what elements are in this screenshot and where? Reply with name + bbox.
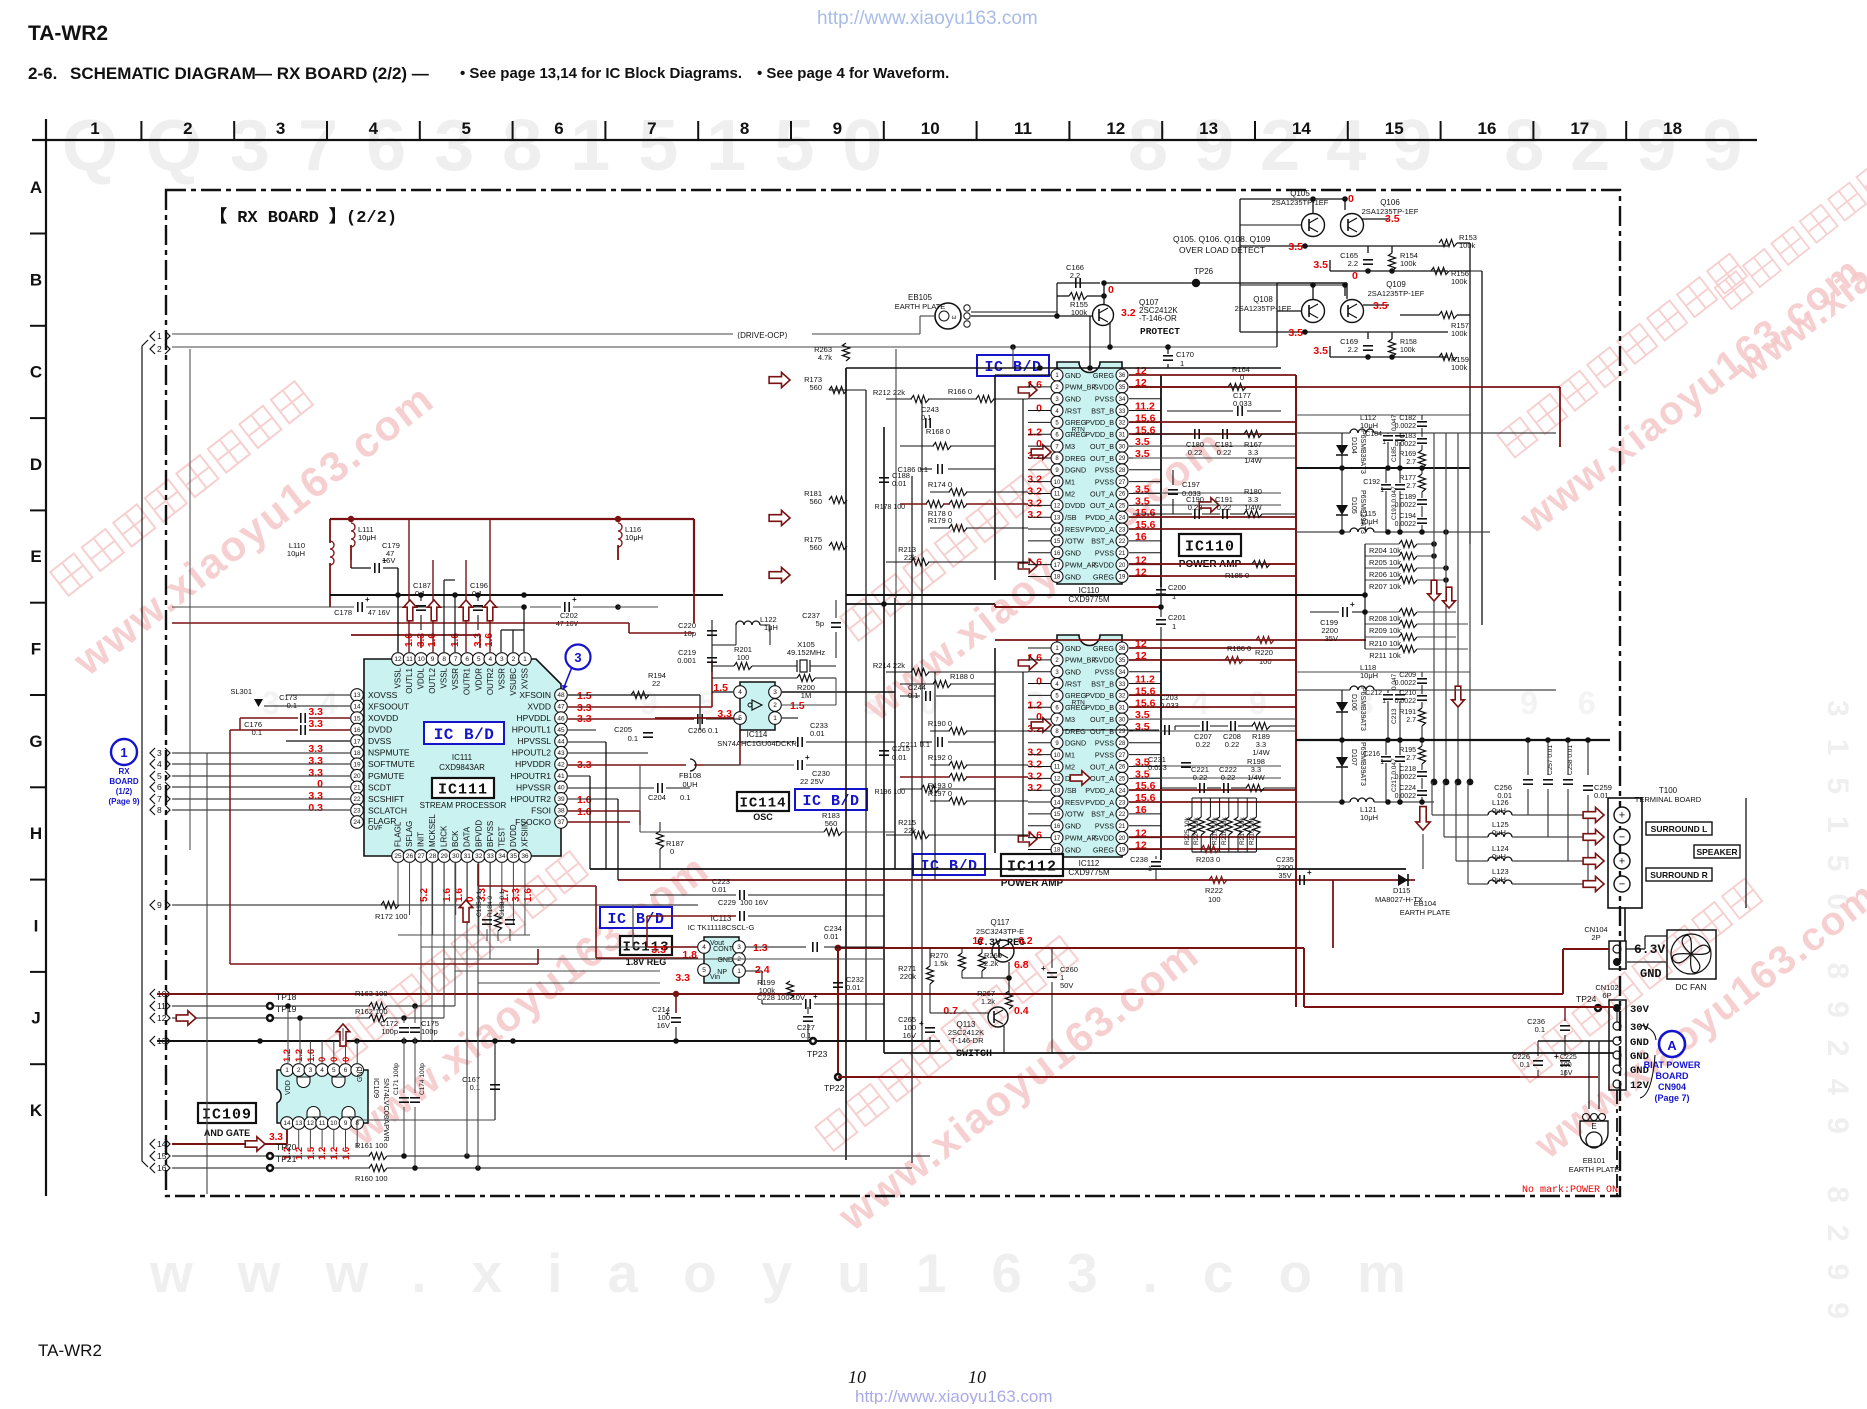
svg-text:30V: 30V xyxy=(1630,1004,1650,1016)
IC111 left components xyxy=(286,694,350,696)
svg-text:6P: 6P xyxy=(1602,991,1611,1000)
svg-text:OUT_A: OUT_A xyxy=(1090,501,1114,510)
svg-text:34: 34 xyxy=(1119,670,1126,676)
IC111 pin 35 xyxy=(507,850,520,863)
svg-text:Q109: Q109 xyxy=(1386,280,1406,289)
IC111 pin 41 xyxy=(555,769,568,782)
svg-text:XFSOOUT: XFSOOUT xyxy=(368,702,409,712)
svg-text:10: 10 xyxy=(968,1367,986,1387)
svg-text:1: 1 xyxy=(1380,487,1384,494)
svg-text:C206 0.1: C206 0.1 xyxy=(688,726,718,735)
capacitor C193 xyxy=(1395,484,1405,486)
svg-text:EARTH PLATE: EARTH PLATE xyxy=(1569,1165,1620,1174)
IC111 pin 29 xyxy=(438,850,451,863)
svg-text:30: 30 xyxy=(1119,717,1126,723)
svg-text:+: + xyxy=(572,595,577,604)
svg-text:47 16V: 47 16V xyxy=(368,610,391,617)
svg-text:0.1: 0.1 xyxy=(415,589,425,598)
inductors L126 L125 L124 L123 xyxy=(1488,811,1512,815)
svg-text:2SA1235TP-1EF: 2SA1235TP-1EF xyxy=(1368,289,1425,298)
IC111 pin 17 xyxy=(351,735,364,748)
svg-text:7: 7 xyxy=(157,794,162,804)
svg-text:OUT_A: OUT_A xyxy=(1090,762,1114,771)
svg-text:0.22: 0.22 xyxy=(1193,773,1208,782)
capacitor C179 xyxy=(374,563,376,573)
svg-text:IC110: IC110 xyxy=(1185,538,1235,555)
svg-text:2.2k: 2.2k xyxy=(984,959,998,968)
svg-text:HPVDDL: HPVDDL xyxy=(517,713,552,723)
svg-text:PVDD_A: PVDD_A xyxy=(1085,786,1114,795)
caps C190 C191 R180 xyxy=(1194,509,1196,519)
resistor R164 xyxy=(1228,383,1246,390)
svg-text:6: 6 xyxy=(344,1067,348,1074)
svg-text:2P: 2P xyxy=(1591,933,1600,942)
out arrows xyxy=(1031,445,1051,459)
svg-text:R218 10k: R218 10k xyxy=(1221,816,1228,845)
svg-text:18: 18 xyxy=(1054,575,1061,581)
svg-text:3.5: 3.5 xyxy=(1288,327,1303,339)
IC112 pin 27 xyxy=(1116,749,1128,761)
svg-text:DVDD: DVDD xyxy=(1065,501,1085,510)
svg-text:BOARD: BOARD xyxy=(109,777,139,786)
svg-text:+: + xyxy=(1350,600,1355,609)
svg-text:0.033: 0.033 xyxy=(1148,763,1167,772)
svg-text:1: 1 xyxy=(1148,864,1152,873)
svg-text:14: 14 xyxy=(283,1120,291,1127)
svg-text:R197 0: R197 0 xyxy=(928,789,952,798)
svg-text:C225: C225 xyxy=(1560,1054,1577,1061)
IC111 pin 39 xyxy=(555,793,568,806)
IC112 pin 15 xyxy=(1051,808,1063,820)
svg-text:36: 36 xyxy=(521,853,529,860)
pwm arrows into amps xyxy=(1018,383,1037,397)
svg-text:10μH: 10μH xyxy=(625,533,643,542)
svg-text:3.3: 3.3 xyxy=(308,790,323,802)
svg-text:• See page 4 for Waveform.: • See page 4 for Waveform. xyxy=(757,65,949,82)
svg-text:R220: R220 xyxy=(1255,648,1273,657)
svg-text:4: 4 xyxy=(157,759,162,769)
svg-text:TP22: TP22 xyxy=(824,1083,845,1093)
svg-text:2.7: 2.7 xyxy=(1406,755,1416,762)
svg-text:C194: C194 xyxy=(1399,513,1416,520)
svg-text:PVSS: PVSS xyxy=(1095,668,1114,677)
svg-text:SCHEMATIC DIAGRAM: SCHEMATIC DIAGRAM xyxy=(70,64,256,83)
wire <5> xyxy=(172,775,350,777)
svg-text:TP23: TP23 xyxy=(807,1049,828,1059)
svg-text:J: J xyxy=(31,1009,40,1028)
svg-text:2: 2 xyxy=(512,656,516,663)
svg-text:GND: GND xyxy=(1065,371,1081,380)
verticals pins top xyxy=(443,580,445,652)
svg-text:PVSS: PVSS xyxy=(1095,395,1114,404)
IC112 pin 5 xyxy=(1051,689,1063,701)
svg-text:GVDD: GVDD xyxy=(1093,560,1114,569)
IC112 pin 20 xyxy=(1116,832,1128,844)
svg-text:TEST: TEST xyxy=(497,826,506,847)
svg-text:3.3: 3.3 xyxy=(308,706,323,718)
svg-text:3: 3 xyxy=(309,1067,313,1074)
svg-text:IC114: IC114 xyxy=(747,730,768,739)
svg-text:48: 48 xyxy=(557,692,565,699)
capacitor C170 xyxy=(1167,347,1169,354)
svg-text:0.1: 0.1 xyxy=(287,701,297,710)
svg-text:28: 28 xyxy=(429,853,437,860)
svg-text:RX: RX xyxy=(118,767,130,776)
svg-text:No mark:POWER ON: No mark:POWER ON xyxy=(1522,1184,1618,1196)
svg-text:C189: C189 xyxy=(1399,494,1416,501)
svg-text:C195 0.1: C195 0.1 xyxy=(476,890,483,917)
wire <15> xyxy=(172,1155,370,1157)
resistor R169 xyxy=(1418,450,1425,468)
IC110 pin 36 xyxy=(1116,369,1128,381)
IC113 pin 4 xyxy=(698,941,711,954)
svg-text:R196 100: R196 100 xyxy=(875,789,905,796)
svg-text:BFVDD: BFVDD xyxy=(474,820,483,847)
svg-text:16: 16 xyxy=(1054,551,1061,557)
svg-text:23: 23 xyxy=(1119,800,1126,806)
IC111 pin 46 xyxy=(555,712,568,725)
svg-text:100: 100 xyxy=(1259,657,1272,666)
svg-text:560: 560 xyxy=(809,497,822,506)
capacitor C202 xyxy=(564,602,566,612)
svg-text:0.7: 0.7 xyxy=(943,1005,958,1017)
svg-text:34: 34 xyxy=(498,853,506,860)
capacitor C217 xyxy=(1395,756,1405,758)
node <8> xyxy=(150,805,155,815)
wire red 12V xyxy=(838,1076,1520,1078)
svg-text:P6SMB39AT3: P6SMB39AT3 xyxy=(1359,742,1366,786)
svg-text:3.5: 3.5 xyxy=(1288,241,1303,253)
svg-text:100k: 100k xyxy=(1400,259,1417,268)
svg-text:R172 100: R172 100 xyxy=(375,912,408,921)
IC109 pin 13 xyxy=(292,1117,305,1130)
IC110 pin 28 xyxy=(1116,464,1128,476)
svg-text:OUT_A: OUT_A xyxy=(1090,774,1114,783)
svg-text:0.0022: 0.0022 xyxy=(1395,502,1417,509)
svg-text:24: 24 xyxy=(1119,788,1126,794)
caps C256-C259 xyxy=(1523,779,1533,781)
svg-text:3: 3 xyxy=(773,689,777,696)
earth plate EB105 xyxy=(935,303,961,329)
IC112 pin 24 xyxy=(1116,784,1128,796)
svg-text:DREG: DREG xyxy=(1065,454,1086,463)
IC114 pin 1 xyxy=(769,712,782,725)
svg-text:20: 20 xyxy=(353,773,361,780)
svg-text:F: F xyxy=(31,640,41,659)
svg-text:37: 37 xyxy=(557,819,565,826)
capacitor C196 xyxy=(473,605,483,607)
ruler left line xyxy=(45,119,47,1196)
svg-text:22k: 22k xyxy=(904,553,916,562)
svg-text:0.033: 0.033 xyxy=(1233,399,1252,408)
svg-text:EARTH PLATE: EARTH PLATE xyxy=(1400,908,1451,917)
svg-text:PVDD_A: PVDD_A xyxy=(1085,525,1114,534)
svg-text:PWM_BP: PWM_BP xyxy=(1065,656,1096,665)
inductor L112 xyxy=(1350,429,1374,433)
svg-text:14: 14 xyxy=(1054,800,1061,806)
node <11> xyxy=(150,1001,155,1011)
svg-text:3.2: 3.2 xyxy=(1027,759,1042,771)
svg-text:C: C xyxy=(30,363,42,382)
IC112 pin 16 xyxy=(1051,820,1063,832)
svg-text:/SB: /SB xyxy=(1065,513,1077,522)
svg-text:R217 10k: R217 10k xyxy=(1239,816,1246,845)
IC111 pin 48 xyxy=(555,689,568,702)
svg-text:46: 46 xyxy=(557,715,565,722)
RX board dash-dot border xyxy=(166,190,1620,1196)
IC111 pin 40 xyxy=(555,781,568,794)
svg-text:R184 0: R184 0 xyxy=(487,896,494,917)
IC110 pin 16 xyxy=(1051,547,1063,559)
svg-text:15: 15 xyxy=(1054,539,1061,545)
svg-text:3.2: 3.2 xyxy=(1027,747,1042,759)
svg-text:560: 560 xyxy=(809,383,822,392)
svg-text:http://www.xiaoyu163.com: http://www.xiaoyu163.com xyxy=(817,8,1038,29)
inductor L121 xyxy=(1350,798,1374,802)
svg-text:10: 10 xyxy=(921,119,940,138)
svg-text:14: 14 xyxy=(1292,119,1311,138)
watermark pink xyxy=(22,321,443,685)
svg-text:1.2: 1.2 xyxy=(1027,699,1042,711)
svg-text:42: 42 xyxy=(557,761,565,768)
left resistors IC110 xyxy=(911,395,929,402)
svg-text:+: + xyxy=(805,753,810,762)
resistor R177 xyxy=(1418,474,1425,492)
wire red rail TP22 xyxy=(838,947,1304,949)
svg-text:SURROUND R: SURROUND R xyxy=(1650,870,1708,880)
capacitor C243 C188 xyxy=(925,418,927,428)
svg-text:VSSR: VSSR xyxy=(451,668,460,690)
svg-text:30V: 30V xyxy=(1630,1022,1650,1034)
IC110 pin 8 xyxy=(1051,452,1063,464)
svg-text:29: 29 xyxy=(441,853,449,860)
watermark pink xyxy=(1470,196,1867,542)
svg-text:/OTW: /OTW xyxy=(1065,810,1084,819)
svg-text:25: 25 xyxy=(1119,777,1126,783)
svg-text:0.0022: 0.0022 xyxy=(1395,441,1417,448)
earth EB104 arrow xyxy=(1416,807,1430,830)
resistor R191 xyxy=(1418,708,1425,726)
svg-text:27: 27 xyxy=(1119,480,1126,486)
power amp IC110 body xyxy=(1057,362,1122,584)
IC112 pin 34 xyxy=(1116,666,1128,678)
svg-text:1/4W: 1/4W xyxy=(1252,748,1270,757)
svg-text:PVDD_A: PVDD_A xyxy=(1085,798,1114,807)
svg-text:28: 28 xyxy=(1119,468,1126,474)
svg-text:C174 100p: C174 100p xyxy=(419,1063,426,1095)
svg-text:XOVSS: XOVSS xyxy=(368,690,398,700)
svg-text:DVDD: DVDD xyxy=(509,824,518,847)
svg-text:100k: 100k xyxy=(1451,277,1468,286)
svg-text:6: 6 xyxy=(554,119,563,138)
svg-text:BST_A: BST_A xyxy=(1091,537,1114,546)
svg-text:C209: C209 xyxy=(1399,672,1416,679)
svg-text:SN74AHC1GU04DCKR: SN74AHC1GU04DCKR xyxy=(717,739,797,748)
svg-text:35: 35 xyxy=(510,853,518,860)
svg-text:IC110: IC110 xyxy=(1079,586,1100,595)
IC111 pin 36 xyxy=(519,850,532,863)
svg-text:4: 4 xyxy=(702,944,706,951)
capacitor C212 xyxy=(1383,694,1393,696)
svg-text:IC B/D: IC B/D xyxy=(920,858,977,875)
svg-text:OUTL1: OUTL1 xyxy=(405,667,414,693)
IC110 pin 30 xyxy=(1116,440,1128,452)
svg-text:0.3: 0.3 xyxy=(308,802,323,814)
svg-text:16V: 16V xyxy=(382,556,395,565)
svg-text:1.5k: 1.5k xyxy=(934,959,948,968)
svg-text:TA-WR2: TA-WR2 xyxy=(38,1341,102,1360)
C171 C174 xyxy=(399,1097,409,1099)
IC111 pin 21 xyxy=(351,781,364,794)
svg-text:3: 3 xyxy=(276,119,285,138)
svg-text:GREG: GREG xyxy=(1093,371,1115,380)
svg-text:4: 4 xyxy=(369,119,379,138)
mid gnd line xyxy=(1296,467,1470,469)
svg-text:0.0022: 0.0022 xyxy=(1395,680,1417,687)
svg-text:4: 4 xyxy=(489,656,493,663)
svg-text:22: 22 xyxy=(1119,539,1126,545)
svg-text:K: K xyxy=(30,1101,43,1120)
svg-text:3.2: 3.2 xyxy=(1027,497,1042,509)
resistor ladder R225-R216 xyxy=(1188,817,1195,835)
node <4> xyxy=(150,759,155,769)
IC111 pin 11 xyxy=(403,653,416,666)
node <12> xyxy=(150,1013,155,1023)
IC111 pin 13 xyxy=(351,689,364,702)
inductor L116 xyxy=(618,523,622,547)
svg-text:HPVDDR: HPVDDR xyxy=(515,759,551,769)
svg-text:19: 19 xyxy=(1119,575,1126,581)
svg-text:17: 17 xyxy=(1054,563,1061,569)
svg-text:VSSL: VSSL xyxy=(394,667,403,688)
svg-text:DGND: DGND xyxy=(1065,466,1086,475)
IC109 pin 9 xyxy=(339,1117,352,1130)
svg-text:560: 560 xyxy=(809,543,822,552)
svg-text:2: 2 xyxy=(773,702,777,709)
IC111 pin 43 xyxy=(555,746,568,759)
svg-text:IC112: IC112 xyxy=(1007,858,1057,875)
C229 cap xyxy=(739,911,741,921)
svg-text:R214 22k: R214 22k xyxy=(873,661,905,670)
svg-text:0.001: 0.001 xyxy=(677,656,696,665)
svg-text:0.22: 0.22 xyxy=(1188,448,1203,457)
svg-text:DREG: DREG xyxy=(1065,727,1086,736)
svg-text:0: 0 xyxy=(1108,284,1114,296)
svg-text:D107: D107 xyxy=(1350,749,1357,766)
inductor L118 xyxy=(1350,686,1374,690)
wire <16> xyxy=(172,1167,370,1169)
svg-text:TP20: TP20 xyxy=(276,1142,297,1152)
IC112 pin 36 xyxy=(1116,642,1128,654)
svg-text:R186 0: R186 0 xyxy=(1227,644,1251,653)
wire <14> red xyxy=(172,1143,287,1145)
transistor Q105 xyxy=(1302,214,1325,237)
IC109 pin 14 xyxy=(281,1117,294,1130)
IC111 pin 15 xyxy=(351,712,364,725)
svg-text:16: 16 xyxy=(157,1163,167,1173)
IC112 pin 33 xyxy=(1116,678,1128,690)
svg-text:41: 41 xyxy=(557,773,565,780)
svg-text:−: − xyxy=(1619,832,1625,844)
svg-text:8: 8 xyxy=(442,656,446,663)
red bus above IC111 xyxy=(351,518,694,520)
left resistors IC112 xyxy=(911,668,929,675)
svg-text:3.5: 3.5 xyxy=(1313,345,1328,357)
IC112 pin 7 xyxy=(1051,713,1063,725)
red arrows mid-left xyxy=(769,372,790,387)
IC111 pin 44 xyxy=(555,735,568,748)
svg-text:3.3: 3.3 xyxy=(511,888,522,902)
svg-text:0.1: 0.1 xyxy=(472,589,482,598)
IC111 pin 2 xyxy=(507,653,520,666)
IC111 pin 30 xyxy=(449,850,462,863)
svg-text:R208 10k: R208 10k xyxy=(1369,614,1401,623)
IC114 pin 3 xyxy=(769,686,782,699)
svg-text:M1: M1 xyxy=(1065,477,1075,486)
wire bus below IC110 xyxy=(846,603,995,605)
capacitor C173 xyxy=(300,713,302,723)
svg-text:28: 28 xyxy=(1119,741,1126,747)
IC112 pin 11 xyxy=(1051,761,1063,773)
svg-text:7: 7 xyxy=(647,119,656,138)
svg-text:OUTR2: OUTR2 xyxy=(486,667,495,695)
IC109 body xyxy=(277,1070,368,1123)
svg-text:100k: 100k xyxy=(1451,329,1468,338)
terminal board T100 xyxy=(1608,798,1642,908)
svg-text:1.2k: 1.2k xyxy=(981,997,995,1006)
svg-text:DVSS: DVSS xyxy=(368,736,391,746)
node <15> xyxy=(150,1151,155,1161)
svg-text:HPOUTL2: HPOUTL2 xyxy=(512,748,551,758)
IC111 pin 28 xyxy=(426,850,439,863)
svg-text:3.2: 3.2 xyxy=(1027,782,1042,794)
IC110 pin 7 xyxy=(1051,440,1063,452)
svg-text:16: 16 xyxy=(1054,824,1061,830)
svg-text:13: 13 xyxy=(353,692,361,699)
svg-text:0.1: 0.1 xyxy=(801,1031,811,1040)
svg-text:OVF: OVF xyxy=(368,825,382,832)
svg-text:GND: GND xyxy=(1065,572,1081,581)
IC111 pin 19 xyxy=(351,758,364,771)
svg-text:GND: GND xyxy=(1630,1037,1649,1049)
svg-text:/SB: /SB xyxy=(1065,786,1077,795)
svg-text:BOARD: BOARD xyxy=(1656,1071,1689,1081)
node <14> xyxy=(150,1139,155,1149)
svg-text:GREG: GREG xyxy=(1093,644,1115,653)
svg-text:C238: C238 xyxy=(1130,855,1148,864)
resistor R195 xyxy=(1418,746,1425,764)
svg-text:TP21: TP21 xyxy=(276,1154,297,1164)
IC112 pin 13 xyxy=(1051,784,1063,796)
ruler top line xyxy=(32,139,1757,141)
svg-text:10μH: 10μH xyxy=(358,533,376,542)
svg-text:PVDD_B: PVDD_B xyxy=(1085,691,1114,700)
IC112 pin 21 xyxy=(1116,820,1128,832)
capacitor C176 xyxy=(300,725,302,735)
IC110 pin 14 xyxy=(1051,523,1063,535)
IC112 pin 32 xyxy=(1116,689,1128,701)
svg-text:D105: D105 xyxy=(1350,497,1357,514)
svg-text:19: 19 xyxy=(1119,848,1126,854)
crystal X105 xyxy=(800,660,807,672)
svg-text:3.2: 3.2 xyxy=(1027,770,1042,782)
svg-text:0.0022: 0.0022 xyxy=(1395,698,1417,705)
resistor R155 xyxy=(1069,292,1087,299)
svg-text:26: 26 xyxy=(1119,492,1126,498)
inductor L111 xyxy=(351,523,355,547)
capacitor C182 xyxy=(1417,421,1427,423)
svg-text:IC TK11118CSCL-G: IC TK11118CSCL-G xyxy=(688,923,755,932)
